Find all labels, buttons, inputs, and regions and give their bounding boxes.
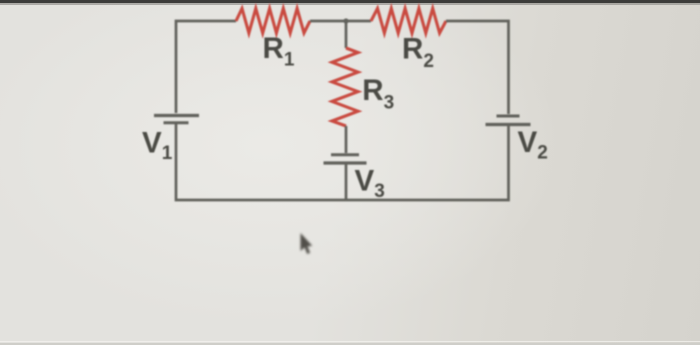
wire middle branch bottom: V3 to bottom wire xyxy=(345,165,348,202)
battery V1 short plate (bottom) xyxy=(164,121,189,124)
battery V3 short plate (top) xyxy=(331,153,359,156)
battery V3 long plate (bottom) xyxy=(324,161,367,164)
resistor R2 xyxy=(371,9,446,34)
resistor R1 xyxy=(236,9,310,34)
node junction top-center xyxy=(343,18,348,23)
wire middle branch lower: R3 to battery V3 xyxy=(345,126,348,153)
wire top-right: R2 to right corner, down to battery V2 xyxy=(446,21,509,114)
wire right-lower: V2 to bottom-right corner xyxy=(346,126,509,200)
wire top-mid: R1 to R2 xyxy=(310,20,371,23)
wire middle branch upper: junction down to R3 xyxy=(345,21,348,48)
battery V2 long plate (bottom) xyxy=(486,123,531,126)
battery V2 short plate (top) xyxy=(497,115,520,118)
wire bottom-left: bottom wire to left corner up to battery V1 xyxy=(176,124,346,200)
resistor R3 xyxy=(332,48,358,126)
wire top-left: left corner to R1 xyxy=(176,21,236,113)
battery V1 long plate (top) xyxy=(154,114,199,117)
